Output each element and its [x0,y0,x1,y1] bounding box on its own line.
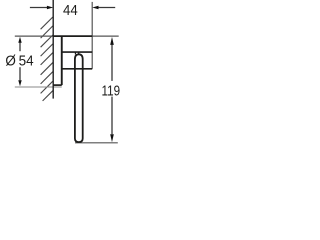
svg-text:44: 44 [63,3,78,19]
svg-text:119: 119 [102,83,121,99]
svg-text:Ø 54: Ø 54 [5,54,33,70]
